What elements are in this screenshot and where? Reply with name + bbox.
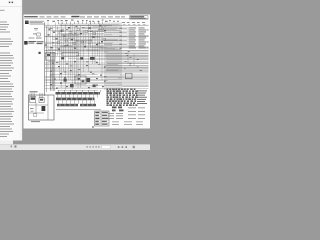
wire	[105, 55, 149, 57]
wire	[104, 31, 127, 33]
terminal	[56, 38, 58, 39]
terminal	[112, 88, 115, 90]
sidebar bookmark entry	[0, 68, 14, 69]
wire	[60, 72, 149, 74]
wire	[106, 57, 149, 59]
wire	[118, 83, 149, 85]
terminal	[129, 96, 131, 98]
wire	[52, 83, 118, 85]
title rule segment	[101, 16, 106, 19]
wire label	[129, 31, 137, 34]
wire label	[137, 96, 147, 99]
wire	[58, 100, 60, 104]
wire label	[124, 121, 132, 124]
terminal	[133, 94, 136, 96]
page	[24, 15, 151, 129]
wire	[48, 61, 98, 63]
wire rail	[45, 26, 47, 92]
terminal	[89, 28, 91, 29]
terminal	[118, 100, 120, 102]
terminal	[56, 88, 58, 89]
wire	[74, 39, 91, 41]
wire label	[133, 24, 136, 27]
terminal	[119, 94, 121, 96]
connector pin	[62, 22, 64, 24]
wire	[104, 27, 127, 29]
terminal	[125, 98, 127, 100]
terminal	[114, 98, 116, 100]
wire label	[140, 69, 142, 72]
sidebar border	[21, 0, 23, 141]
wire	[60, 23, 62, 89]
wire	[97, 30, 99, 56]
terminal	[113, 96, 115, 98]
terminal	[110, 98, 113, 100]
wire	[75, 41, 88, 43]
terminal	[125, 96, 128, 98]
toolbar glyph	[87, 146, 88, 147]
terminal	[61, 30, 63, 31]
terminal	[110, 90, 112, 92]
terminal	[100, 25, 102, 26]
battery B1	[25, 21, 29, 24]
terminal	[116, 88, 118, 90]
wire	[118, 77, 149, 79]
terminal	[123, 98, 125, 100]
wire	[45, 81, 149, 83]
sidebar bookmark entry	[0, 91, 13, 92]
terminal	[107, 88, 109, 90]
component label	[31, 110, 34, 113]
sidebar bookmark entry	[0, 119, 11, 120]
component label	[105, 20, 108, 23]
wire label	[137, 102, 147, 105]
terminal	[129, 90, 131, 92]
sidebar bookmark entry	[0, 134, 9, 135]
wire	[52, 44, 112, 46]
sidebar scrollbar	[20, 7, 22, 140]
terminal	[122, 96, 124, 98]
wire bus	[45, 24, 149, 26]
wire	[118, 90, 120, 103]
wire	[34, 93, 36, 96]
wire label	[127, 54, 129, 57]
terminal	[134, 98, 136, 100]
wire label	[139, 33, 145, 36]
title block E-19	[130, 16, 149, 19]
wire	[52, 74, 98, 76]
terminal	[109, 100, 111, 102]
wire	[88, 30, 105, 32]
wire label	[129, 64, 131, 67]
terminal	[113, 94, 116, 96]
wire label	[128, 107, 136, 110]
wire label	[138, 24, 140, 27]
toolbar glyph	[93, 146, 94, 147]
component label	[109, 19, 111, 22]
wire	[76, 95, 78, 98]
terminal	[132, 92, 134, 94]
wire	[122, 31, 129, 33]
component label	[65, 19, 68, 22]
terminal	[116, 98, 118, 100]
wire	[90, 23, 92, 49]
wire	[48, 29, 121, 31]
connector pin	[70, 22, 72, 24]
terminal	[135, 92, 137, 94]
sidebar bookmark entry	[0, 76, 11, 77]
relay K1	[46, 53, 56, 61]
label text	[28, 42, 34, 45]
component label	[102, 19, 104, 22]
wire label	[137, 21, 140, 24]
sidebar bookmark entry	[0, 114, 12, 115]
nav button	[125, 146, 127, 148]
wire	[45, 26, 118, 28]
wire	[87, 24, 89, 72]
terminal	[60, 73, 62, 74]
wire	[82, 30, 84, 72]
terminal	[132, 98, 134, 100]
toolbar glyph	[96, 146, 97, 147]
wire label	[139, 45, 145, 48]
terminal	[71, 39, 73, 40]
sidebar bookmark entry	[0, 55, 13, 56]
wire label	[139, 37, 147, 40]
sidebar bookmark entry	[0, 111, 14, 112]
wire label	[129, 27, 137, 30]
toolbar icon	[12, 2, 14, 3]
connector pin	[78, 22, 80, 24]
component label	[61, 19, 63, 22]
wire	[52, 69, 118, 71]
harness wire	[118, 23, 120, 97]
wire label	[137, 58, 139, 61]
terminal	[120, 102, 122, 104]
toolbar glyph	[90, 146, 91, 147]
terminal	[125, 90, 128, 92]
terminal	[96, 62, 98, 63]
sidebar panel	[0, 0, 22, 141]
zoom field	[102, 145, 111, 148]
wire label	[138, 110, 145, 113]
sidebar bookmark entry	[0, 101, 12, 102]
wire label	[116, 117, 123, 120]
connector block	[126, 73, 133, 79]
harness wire	[54, 52, 56, 91]
wire label	[129, 43, 137, 46]
terminal	[107, 100, 109, 102]
wire label	[132, 21, 135, 24]
component label	[30, 107, 34, 110]
terminal	[96, 85, 98, 86]
terminal	[130, 102, 132, 104]
wire	[101, 26, 103, 80]
wire	[85, 34, 87, 48]
terminal	[125, 92, 127, 94]
terminal	[116, 96, 119, 98]
wire label	[36, 37, 42, 40]
wire label	[108, 117, 114, 120]
wire label	[100, 46, 102, 49]
connector pin	[86, 22, 88, 24]
terminal	[107, 98, 109, 100]
wire	[52, 26, 54, 88]
connector pin	[74, 22, 76, 24]
title rule segment	[87, 16, 92, 19]
toolbar glyph	[98, 146, 99, 147]
wire label	[123, 24, 126, 27]
wire label	[92, 73, 94, 76]
terminal	[122, 92, 124, 94]
terminal	[132, 90, 134, 92]
terminal	[86, 65, 88, 66]
connector	[65, 40, 68, 42]
terminal	[128, 98, 131, 100]
wire	[77, 34, 79, 88]
harness wire	[106, 23, 108, 93]
terminal	[123, 102, 125, 104]
wire	[94, 30, 96, 64]
wire label	[86, 61, 88, 64]
terminal	[51, 47, 53, 48]
wire label	[34, 27, 38, 30]
terminal	[107, 102, 110, 104]
sidebar bookmark entry	[0, 121, 12, 122]
sidebar bookmark entry	[0, 53, 10, 54]
terminal	[134, 100, 136, 102]
wire label	[35, 29, 38, 32]
terminal	[74, 61, 76, 62]
terminal	[80, 33, 82, 34]
terminal	[120, 31, 122, 34]
terminal	[74, 48, 76, 49]
sidebar bookmark entry	[0, 96, 12, 97]
wire	[45, 80, 108, 82]
harness wire	[112, 23, 114, 91]
wire	[63, 90, 65, 92]
terminal	[116, 94, 118, 96]
terminal	[119, 96, 121, 98]
wire	[47, 23, 49, 73]
terminal	[133, 104, 135, 106]
junction box	[62, 52, 79, 56]
wire label	[37, 40, 44, 43]
connector	[57, 42, 60, 44]
note mark	[92, 126, 94, 127]
terminal	[64, 36, 66, 37]
wire label	[50, 74, 52, 77]
wire	[99, 24, 119, 26]
wire label	[124, 67, 126, 70]
connector	[118, 107, 122, 109]
wire label	[139, 47, 147, 50]
connector strip row 1	[56, 92, 101, 95]
wire label	[129, 56, 131, 59]
terminal	[113, 90, 115, 92]
component label	[86, 19, 88, 22]
terminal	[70, 70, 72, 71]
wire	[88, 95, 90, 98]
wire	[45, 84, 149, 86]
wire	[52, 31, 104, 33]
connector	[64, 79, 67, 82]
connector	[112, 107, 117, 109]
terminal	[129, 104, 132, 106]
wire label	[58, 31, 60, 34]
wire	[104, 51, 149, 53]
sidebar bookmark entry	[0, 104, 13, 105]
wire label	[70, 65, 72, 68]
wire	[68, 95, 70, 98]
connector	[70, 84, 74, 87]
terminal	[53, 32, 55, 33]
label text	[30, 20, 44, 23]
terminal	[120, 35, 122, 38]
wire label	[127, 21, 130, 24]
wire	[32, 93, 34, 96]
sidebar bookmark entry	[0, 129, 12, 130]
harness wire	[51, 52, 53, 91]
nav button	[118, 146, 120, 148]
wire	[45, 62, 149, 64]
terminal	[113, 92, 115, 94]
wire label	[128, 117, 136, 120]
wire	[60, 45, 72, 47]
wire label	[128, 50, 130, 53]
sidebar bookmark entry	[0, 44, 12, 45]
wire label	[147, 29, 149, 32]
wire	[68, 65, 149, 67]
wire	[81, 90, 83, 92]
wire label	[37, 42, 43, 45]
connector pin	[58, 22, 60, 24]
indicator	[78, 78, 80, 80]
terminal	[133, 102, 135, 104]
wire bus	[45, 46, 149, 48]
wire	[93, 90, 95, 92]
wire	[45, 71, 149, 73]
terminal	[120, 47, 122, 50]
wire	[91, 30, 93, 64]
terminal	[127, 88, 129, 90]
status icon	[11, 146, 13, 148]
wire	[99, 29, 116, 31]
terminal	[60, 83, 62, 84]
terminal	[136, 94, 138, 96]
terminal	[78, 74, 80, 75]
wire label	[139, 27, 145, 30]
wire	[76, 59, 149, 61]
wire	[56, 34, 112, 36]
toolbar divider	[0, 6, 22, 8]
terminal	[120, 27, 122, 30]
harness wire	[104, 23, 106, 91]
wire	[69, 24, 71, 80]
wire bus	[45, 50, 149, 52]
terminal	[119, 98, 122, 100]
connector	[97, 42, 100, 44]
sidebar bookmark entry	[0, 29, 6, 30]
wire label	[128, 114, 136, 117]
wire	[58, 30, 60, 80]
wire	[45, 41, 96, 43]
wire	[57, 90, 59, 92]
wire label	[116, 115, 123, 118]
harness wire	[116, 23, 118, 95]
wire label	[125, 52, 127, 55]
wire	[122, 39, 129, 41]
terminal	[104, 67, 106, 68]
wire label	[108, 112, 114, 115]
terminal	[90, 72, 92, 73]
wire	[98, 42, 113, 44]
sidebar bookmark entry	[0, 81, 10, 82]
wire bus	[56, 109, 101, 111]
terminal	[135, 90, 138, 92]
wire	[58, 89, 98, 91]
wire	[29, 93, 31, 96]
wire	[122, 27, 129, 29]
sidebar bottom tab	[0, 141, 13, 146]
terminal	[101, 41, 103, 42]
label text	[31, 120, 40, 123]
wire label	[139, 39, 145, 42]
connector	[93, 85, 96, 88]
terminal	[118, 88, 120, 90]
wire	[91, 36, 100, 38]
wire label	[29, 37, 35, 40]
wire	[57, 26, 59, 56]
connector strip row 3a	[57, 104, 78, 107]
wire label	[98, 63, 100, 66]
sidebar bookmark entry	[0, 94, 11, 95]
terminal	[116, 104, 118, 106]
wire label	[147, 35, 149, 38]
terminal	[88, 87, 90, 88]
sidebar bookmark entry	[0, 65, 11, 66]
sidebar bookmark entry	[0, 99, 14, 100]
wire	[107, 59, 149, 61]
wire	[60, 25, 112, 27]
wire	[49, 26, 51, 90]
sidebar bookmark entry	[0, 32, 10, 33]
wire label	[128, 24, 130, 27]
wire	[93, 26, 107, 28]
terminal	[96, 78, 98, 79]
status bar	[0, 145, 150, 151]
wire	[133, 54, 135, 66]
terminal	[124, 100, 126, 102]
terminal	[112, 100, 115, 102]
sidebar bookmark entry	[0, 86, 14, 87]
connector	[69, 32, 72, 34]
wire	[78, 100, 80, 104]
wire	[69, 90, 71, 92]
connector	[61, 57, 64, 59]
title rule segment	[115, 16, 120, 19]
wire	[114, 90, 116, 103]
wire	[75, 30, 77, 80]
harness wire	[120, 23, 122, 91]
wire	[107, 66, 149, 68]
terminal	[121, 88, 124, 90]
terminal	[130, 88, 133, 90]
title rule segment	[40, 16, 45, 19]
terminal	[127, 100, 129, 102]
component label	[77, 20, 79, 23]
connector	[73, 43, 76, 45]
